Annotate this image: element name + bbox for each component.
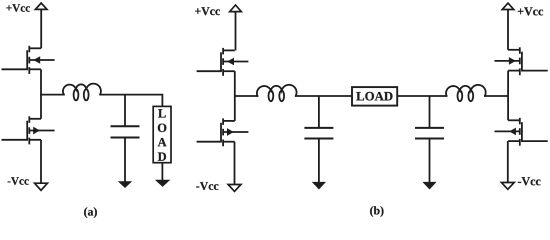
transistor M4 (b left bottom) — [197, 118, 249, 146]
transistor M3 (b left top) — [197, 48, 249, 76]
+Vcc label for +Vcc arrow (b left) — [195, 7, 220, 15]
wire: load to right section — [397, 95, 447, 97]
+Vcc arrow (a) up arrow — [35, 3, 47, 48]
-Vcc arrow (b left) down arrow — [228, 185, 241, 192]
wire: inductor to load left — [295, 95, 352, 97]
-Vcc arrow (a) down arrow — [35, 183, 48, 190]
wire: M1 source to M2 drain — [40, 69, 42, 119]
wire: output tap to inductor — [40, 94, 65, 96]
ground under capacitor C3 — [423, 182, 435, 189]
wire: M3 source to M4 drain — [234, 71, 236, 121]
ground under load (a) — [156, 180, 169, 186]
inductor L1 — [63, 84, 101, 95]
wire: inductor to load — [100, 95, 163, 107]
-Vcc label for -Vcc arrow (b left) — [196, 182, 218, 190]
-Vcc arrow (b right) lead — [507, 141, 509, 182]
capacitor C2 — [304, 96, 333, 182]
load box (a) — [153, 106, 171, 162]
+Vcc arrow (b left) up arrow — [230, 5, 242, 50]
capacitor C1 — [111, 95, 140, 182]
-Vcc arrow (a) lead — [40, 140, 42, 183]
-Vcc label for -Vcc arrow (b right) — [518, 177, 541, 185]
wire: M5 source to M6 drain — [507, 71, 509, 121]
transistor M5 (b right top) — [495, 47, 548, 75]
capacitor C3 — [415, 96, 444, 182]
label (b) — [370, 206, 383, 217]
+Vcc arrow (b right) up arrow — [502, 3, 514, 50]
load box (b) — [352, 87, 397, 106]
-Vcc arrow (b right) down arrow — [501, 183, 514, 190]
+Vcc label for +Vcc arrow (b right) — [518, 7, 543, 15]
wire: inductor to right column tap — [484, 95, 509, 97]
inductor L3 — [446, 85, 486, 96]
transistor M1 (a top) — [2, 46, 55, 74]
label (a) — [84, 207, 97, 218]
ground under capacitor C2 — [313, 182, 325, 189]
inductor L2 — [257, 85, 297, 96]
-Vcc label for -Vcc arrow (a) — [8, 177, 29, 185]
wire: load bottom lead — [161, 163, 163, 181]
transistor M2 (a bottom) — [2, 116, 55, 144]
transistor M6 (b right bottom) — [495, 118, 548, 146]
load text vertical — [158, 109, 167, 160]
wire: left tap to inductor — [234, 95, 258, 97]
load text — [356, 92, 392, 101]
ground under capacitor C1 — [119, 182, 131, 188]
+Vcc label for +Vcc arrow (a) — [6, 4, 30, 12]
-Vcc arrow (b left) lead — [234, 142, 236, 185]
